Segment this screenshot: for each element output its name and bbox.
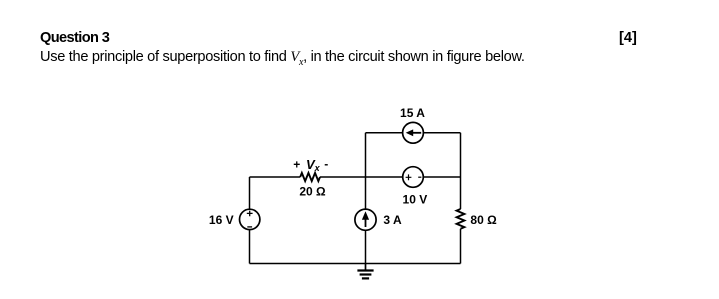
wire bottom (250, 263, 461, 265)
I1 arrow up (365, 218, 367, 227)
wire middle horizontal right of R1 (320, 176, 461, 178)
svg-text:Vx: Vx (306, 157, 321, 173)
marks [4] (619, 30, 637, 46)
wire middle horizontal left of R1 (250, 176, 301, 178)
voltage source V2 10V circle (403, 167, 424, 188)
V2 plus sign (406, 174, 412, 180)
current source I2 15A circle (403, 122, 424, 143)
voltage source V1 16V circle (240, 209, 260, 229)
svg-text:-: - (324, 157, 328, 171)
I2 arrow left (411, 132, 421, 134)
wire middle vertical (365, 133, 367, 264)
V2 minus sign (418, 176, 421, 178)
resistor R1 20 ohm (300, 173, 320, 181)
wire right vertical upper (460, 133, 462, 209)
svg-text:3 A: 3 A (383, 213, 402, 227)
V1 plus sign (247, 211, 253, 217)
wire right vertical lower (460, 229, 462, 264)
current source I1 3A circle (355, 209, 376, 230)
heading Question 3 (40, 30, 109, 46)
problem statement (40, 49, 525, 68)
svg-text:80 Ω: 80 Ω (470, 213, 497, 227)
wire left branch vertical (249, 177, 251, 264)
ground (357, 264, 373, 279)
wire top branch (366, 132, 461, 134)
svg-text:15 A: 15 A (400, 106, 425, 120)
svg-text:+: + (293, 157, 300, 171)
svg-text:16 V: 16 V (209, 213, 234, 227)
V1 minus sign (247, 226, 252, 228)
svg-text:20 Ω: 20 Ω (299, 185, 326, 199)
resistor R2 80 ohm (457, 209, 465, 229)
svg-text:10 V: 10 V (403, 193, 428, 207)
